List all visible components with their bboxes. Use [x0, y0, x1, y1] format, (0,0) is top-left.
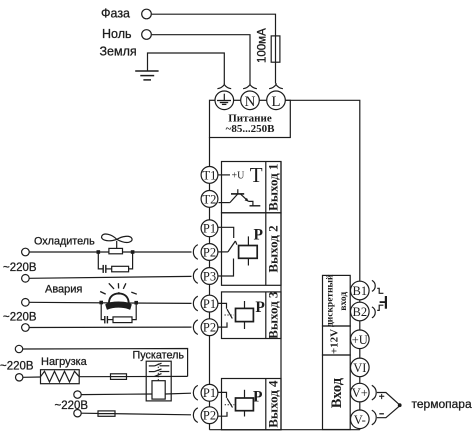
- svg-text:Выход 3: Выход 3: [266, 291, 281, 339]
- svg-text:P: P: [255, 299, 265, 316]
- svg-text:B1: B1: [353, 284, 368, 298]
- terminal circle cooler line 2: [22, 275, 30, 283]
- label P block 4: [253, 389, 263, 406]
- output block 1 label divider: [265, 162, 267, 213]
- connector arc at P2 block 2: [193, 245, 197, 260]
- input box Вход: [323, 355, 351, 430]
- label ~220В starter: [55, 400, 89, 412]
- terminal +U: [351, 330, 370, 349]
- svg-text:T: T: [250, 163, 263, 187]
- svg-text:дискретный: дискретный: [325, 274, 336, 327]
- terminal V+: [351, 383, 370, 402]
- svg-text:+12V: +12V: [329, 329, 341, 354]
- right bus wire through input terminals: [359, 281, 361, 430]
- connector arc at P3 block 2: [193, 269, 197, 284]
- terminal circle alarm line 1: [22, 299, 30, 307]
- terminal B2: [351, 302, 370, 321]
- terminal V-: [351, 410, 370, 429]
- terminal circle load line 2: [16, 374, 23, 381]
- right edge connector between blocks: [280, 162, 282, 430]
- wire alarm line 1 to P1: [29, 302, 191, 303]
- power box Питание: [210, 100, 291, 137]
- wire fork above earth terminal: [217, 83, 231, 89]
- output block 4 label divider: [265, 379, 267, 430]
- terminal VI: [351, 358, 370, 377]
- terminal circle starter line 2: [74, 410, 81, 417]
- label +12V: [329, 329, 341, 354]
- relay coil block 2: [239, 236, 258, 265]
- wire fork above L terminal: [269, 83, 283, 89]
- svg-text:N: N: [245, 94, 256, 110]
- discrete input box: [323, 275, 351, 326]
- relay coil block 4: [236, 390, 254, 417]
- terminal P2 block 4: [201, 407, 218, 424]
- svg-text:P1: P1: [203, 222, 216, 236]
- svg-text:V+: V+: [352, 386, 368, 400]
- terminal L: [267, 91, 286, 110]
- svg-text:Выход 4: Выход 4: [266, 380, 281, 428]
- starter box: [146, 361, 171, 401]
- label термопара: [412, 397, 472, 411]
- label Выход 4: [266, 380, 281, 428]
- svg-text:T2: T2: [203, 192, 217, 206]
- label Вход: [329, 377, 345, 408]
- label Охладитель: [34, 236, 95, 248]
- terminal P1 block 2: [201, 220, 218, 237]
- fuse on starter wire: [98, 411, 115, 416]
- svg-text:~220В: ~220В: [3, 311, 37, 323]
- push button on B1 B2: [377, 288, 386, 310]
- svg-text:Авария: Авария: [45, 284, 82, 296]
- fan symbol: [102, 234, 133, 248]
- wire load line 1 around starter: [23, 349, 188, 377]
- fuse 100мА: [271, 36, 280, 62]
- output block 3 box: [222, 292, 282, 339]
- svg-text:P2: P2: [203, 409, 216, 423]
- label P block 2: [254, 227, 264, 244]
- relay contact block 2: [218, 227, 237, 276]
- label P block 3: [255, 299, 265, 316]
- svg-text:Вход: Вход: [329, 377, 345, 408]
- terminal circle cooler line 1: [22, 248, 30, 256]
- terminal N: [241, 91, 260, 110]
- wire fork above N terminal: [243, 83, 257, 89]
- terminal P1 block 4: [201, 384, 218, 401]
- terminal P1 block 3: [201, 295, 218, 312]
- svg-text:~220В: ~220В: [55, 400, 89, 412]
- bottom wire to V-: [210, 429, 360, 431]
- output block 1 box: [222, 162, 282, 213]
- wire cooler line 2 to P3: [29, 276, 191, 278]
- relay contact block 3: [218, 303, 234, 327]
- svg-text:Пускатель: Пускатель: [133, 350, 185, 362]
- svg-text:Нагрузка: Нагрузка: [41, 356, 88, 368]
- wire Ноль to N: [152, 35, 250, 84]
- load resistor Нагрузка: [41, 370, 80, 384]
- connector arc at P2 block 3: [193, 320, 197, 335]
- label Выход 1: [266, 164, 281, 211]
- label ~220В load: [0, 361, 34, 373]
- terminal B1: [351, 281, 370, 300]
- terminal T2: [201, 191, 218, 208]
- svg-text:+: +: [379, 392, 385, 403]
- label дискретный вход: [325, 274, 350, 327]
- svg-text:+U: +U: [352, 333, 368, 347]
- svg-text:P3: P3: [203, 269, 216, 283]
- label + thermocouple: [379, 392, 385, 403]
- label 100мА: [257, 28, 269, 63]
- svg-text:P: P: [254, 227, 264, 244]
- svg-text:~85...250В: ~85...250В: [226, 123, 275, 135]
- RC snubber alarm: [101, 303, 136, 324]
- svg-text:VI: VI: [353, 361, 366, 375]
- svg-text:T1: T1: [203, 168, 217, 182]
- svg-text:Фаза: Фаза: [101, 7, 130, 21]
- thermocouple: [377, 393, 402, 418]
- connector arc at P2 block 4: [193, 408, 197, 423]
- svg-text:термопара: термопара: [412, 397, 472, 411]
- fuse on load wire: [111, 374, 127, 380]
- terminal P2 block 3: [201, 319, 218, 336]
- svg-text:100мА: 100мА: [257, 28, 269, 63]
- output block 2 label divider: [265, 213, 267, 285]
- starter contacts: [149, 363, 170, 380]
- terminal circle starter line 1: [74, 391, 81, 398]
- output block 3 label divider: [265, 292, 267, 339]
- label - thermocouple: [379, 413, 384, 415]
- output block 2 box: [222, 213, 282, 285]
- terminal P3 block 2: [201, 268, 218, 285]
- wire L to right bus down to B1: [285, 100, 360, 281]
- junction dots cooler: [97, 250, 135, 254]
- connector arc at P1 block 3: [193, 296, 197, 311]
- svg-text:Выход 1: Выход 1: [266, 164, 281, 211]
- wire alarm line 2 to P2: [29, 326, 191, 328]
- svg-text:Охладитель: Охладитель: [34, 236, 95, 248]
- +12V box: [323, 326, 351, 355]
- wire cooler line 1 to P2: [29, 251, 191, 253]
- label Нагрузка: [41, 356, 88, 368]
- junction dots alarm: [99, 301, 138, 305]
- label ~220В cooler: [3, 262, 37, 274]
- terminal P2 block 2: [201, 244, 218, 261]
- terminal circle Фаза: [142, 9, 152, 19]
- label +U: [232, 171, 246, 182]
- svg-text:P: P: [253, 389, 263, 406]
- svg-text:P2: P2: [203, 245, 216, 259]
- terminal earth: [215, 91, 234, 110]
- connector arc at B1: [372, 280, 375, 291]
- relay coil block 3: [236, 301, 254, 329]
- label Ноль: [102, 27, 132, 41]
- wire starter line 2 to P2: [81, 413, 191, 415]
- svg-text:~220В: ~220В: [0, 361, 34, 373]
- svg-text:+U: +U: [232, 171, 246, 182]
- terminal T1: [201, 167, 218, 184]
- label Авария: [45, 284, 82, 296]
- wire Земля to earth terminal: [148, 53, 225, 83]
- lamp symbol: [100, 283, 137, 309]
- label Земля: [100, 45, 137, 59]
- RC snubber cooler: [98, 252, 132, 273]
- svg-text:B2: B2: [353, 305, 368, 319]
- label Выход 3: [266, 291, 281, 339]
- label T: [250, 163, 263, 187]
- terminal circle load line 1: [15, 345, 22, 352]
- output block 4 box: [222, 379, 282, 430]
- svg-text:P1: P1: [203, 297, 216, 311]
- label Питание ~85...250В: [226, 112, 275, 135]
- svg-text:V-: V-: [354, 413, 366, 427]
- svg-text:Земля: Земля: [100, 45, 137, 59]
- starter coil: [152, 381, 165, 399]
- ground symbol: [135, 71, 158, 80]
- wire resistor to starter contact: [79, 375, 187, 377]
- svg-text:P1: P1: [203, 386, 216, 400]
- terminal circle Ноль: [142, 30, 152, 40]
- label ~220В alarm: [3, 311, 37, 323]
- wire starter coil to P1: [81, 393, 191, 394]
- transistor output symbol: [219, 189, 261, 206]
- svg-text:L: L: [271, 94, 280, 110]
- fan motor box: [109, 248, 123, 253]
- svg-text:P2: P2: [203, 321, 216, 335]
- label Пускатель: [133, 350, 185, 362]
- label Выход 2: [266, 225, 281, 272]
- svg-text:~220В: ~220В: [3, 262, 37, 274]
- terminal circle alarm line 2: [22, 324, 30, 332]
- svg-text:Ноль: Ноль: [102, 27, 132, 41]
- label Фаза: [101, 7, 130, 21]
- wire T1 to +U: [218, 174, 230, 176]
- connector arc at B2: [372, 307, 375, 318]
- svg-text:вход: вход: [339, 292, 349, 311]
- wire Фаза to fuse to L: [152, 14, 276, 83]
- wire load line 2 to resistor: [23, 376, 41, 378]
- relay contact block 4: [218, 392, 234, 416]
- left bus wire through output terminals: [209, 137, 211, 429]
- svg-text:Выход 2: Выход 2: [266, 225, 281, 272]
- connector arc at V+: [372, 385, 376, 400]
- connector arc at P1 block 4: [193, 385, 197, 400]
- connector arc at V-: [372, 410, 376, 425]
